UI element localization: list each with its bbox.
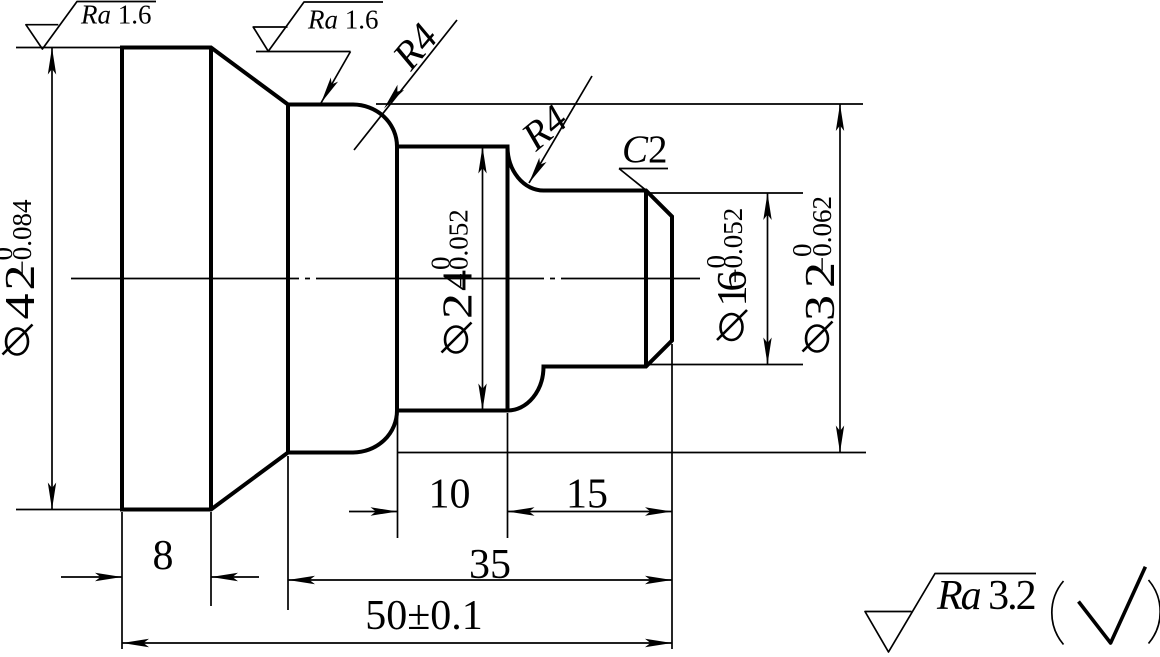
- svg-text:0: 0: [0, 247, 18, 261]
- svg-text:−: −: [720, 268, 750, 283]
- svg-text:50±0.1: 50±0.1: [365, 593, 483, 639]
- svg-text:C2: C2: [622, 128, 668, 171]
- svg-text:Ra 1.6: Ra 1.6: [307, 5, 379, 35]
- svg-text:Ra 3.2: Ra 3.2: [936, 573, 1035, 619]
- svg-text:0: 0: [701, 255, 731, 269]
- svg-text:35: 35: [469, 542, 511, 588]
- svg-text:Ra 1.6: Ra 1.6: [80, 0, 152, 30]
- svg-text:−0.062: −0.062: [807, 196, 837, 272]
- svg-text:0: 0: [426, 257, 456, 271]
- svg-text:−: −: [446, 273, 476, 288]
- svg-text:3: 3: [798, 295, 844, 321]
- svg-text:15: 15: [566, 472, 608, 518]
- svg-text:8: 8: [153, 533, 174, 579]
- svg-text:0: 0: [787, 244, 817, 258]
- svg-text:4: 4: [0, 294, 44, 320]
- svg-text:2: 2: [436, 293, 482, 319]
- svg-text:10: 10: [429, 472, 471, 518]
- svg-text:−0.084: −0.084: [7, 199, 37, 275]
